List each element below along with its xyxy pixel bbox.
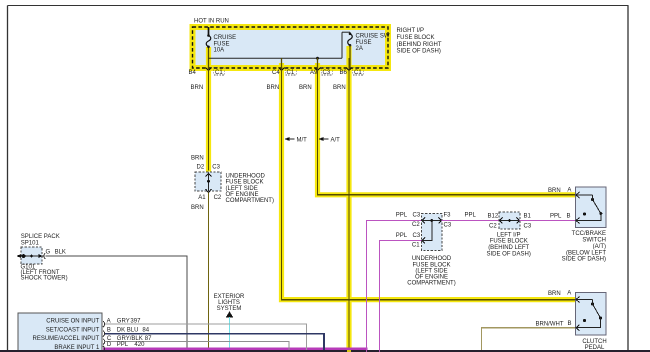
underhood fuse block U1 (left of engine compartment) dashed box <box>195 172 221 193</box>
svg-text:FUSE: FUSE <box>356 40 372 46</box>
svg-text:RIGHT I/P: RIGHT I/P <box>397 28 425 34</box>
svg-text:SWITCH: SWITCH <box>582 238 606 244</box>
svg-text:BLK: BLK <box>55 250 66 256</box>
svg-text:DK BLU: DK BLU <box>117 327 139 333</box>
wire PPL between underhood fuse block 2 and left I/P fuse block <box>442 220 500 222</box>
wire (cyan) to exterior lights system <box>229 317 231 350</box>
svg-text:B12: B12 <box>488 214 499 220</box>
svg-text:CRUISE SW: CRUISE SW <box>356 34 390 40</box>
svg-text:C2: C2 <box>214 195 222 201</box>
svg-text:SP101: SP101 <box>21 241 40 247</box>
svg-text:OF ENGINE: OF ENGINE <box>226 192 259 198</box>
svg-text:A1: A1 <box>198 195 206 201</box>
PPL stubs crossing bottom bar <box>366 350 367 352</box>
wire PPL from left I/P fuse block to TCC/brake switch pin B <box>520 220 576 222</box>
pin labels A1 C2 <box>198 195 222 201</box>
cruise fuse F1 internal wire <box>208 27 210 70</box>
fuse CRUISE FUSE 10A <box>206 34 236 53</box>
wire GRY 397 right then down <box>105 324 307 350</box>
svg-text:10A: 10A <box>214 48 225 54</box>
svg-text:UNDERHOOD: UNDERHOOD <box>412 256 452 262</box>
svg-text:FUSE BLOCK: FUSE BLOCK <box>397 35 435 41</box>
splice pack SP101 symbol <box>17 247 46 264</box>
pin letter B and label DK BLU 84 <box>107 327 150 333</box>
wire PPL vertical drop 2 from underhood fuse block 2 <box>379 241 381 352</box>
fuse CRUISE SW FUSE 2A <box>348 32 390 69</box>
wire BLK from splice pack right then down to bottom <box>46 256 188 350</box>
svg-text:C3: C3 <box>212 165 220 171</box>
svg-text:PPL: PPL <box>117 342 129 348</box>
wire PPL vertical drop 1 from underhood fuse block 2 <box>366 221 368 352</box>
svg-text:LEFT I/P: LEFT I/P <box>497 232 521 238</box>
svg-text:COMPARTMENT): COMPARTMENT) <box>407 281 455 287</box>
svg-text:C1: C1 <box>287 70 295 76</box>
svg-text:B: B <box>107 327 111 333</box>
svg-text:B: B <box>568 321 572 327</box>
bottom module edge bar (cut off box) <box>0 350 650 352</box>
svg-text:A: A <box>567 290 571 296</box>
svg-text:PPL: PPL <box>396 233 408 239</box>
label M/T with arrow <box>285 137 308 143</box>
svg-text:BRN: BRN <box>267 85 280 91</box>
svg-text:SPLICE PACK: SPLICE PACK <box>21 234 60 240</box>
svg-text:(A/T): (A/T) <box>593 244 606 250</box>
pin labels D2 C3 <box>197 165 221 171</box>
svg-text:A9: A9 <box>310 70 318 76</box>
svg-text:SYSTEM: SYSTEM <box>217 306 242 312</box>
magenta highlight of PPL 420 wire along bottom <box>103 347 368 350</box>
svg-text:BRN: BRN <box>548 291 561 297</box>
svg-text:C3: C3 <box>323 70 331 76</box>
labels BRN A at TCC switch <box>548 188 571 195</box>
underhood fuse block U2 dashed box <box>422 214 443 251</box>
svg-text:C1: C1 <box>412 243 420 249</box>
svg-text:COMPARTMENT): COMPARTMENT) <box>226 198 274 204</box>
svg-text:D2: D2 <box>197 165 205 171</box>
labels F3 / C3 / PPL at right pin of underhood fuse block 2 <box>444 213 477 229</box>
label LEFT I/P FUSE BLOCK (BEHIND LEFT SIDE OF DASH) <box>487 232 531 257</box>
label EXTERIOR LIGHTS SYSTEM <box>214 294 245 312</box>
svg-text:BRN: BRN <box>299 85 312 91</box>
wire: BRN wire 3 yellow highlight (A/T) down and right to TCC/brake switch <box>318 63 576 195</box>
wire DK BLU 84 right then down <box>105 334 324 350</box>
svg-text:C2: C2 <box>412 222 420 228</box>
svg-text:84: 84 <box>142 327 149 333</box>
wire 3 core (BRN to TCC switch) <box>318 58 576 195</box>
pin letter D and label PPL 420 <box>107 342 145 348</box>
wire: BRN wire 4 yellow highlight straight down to bottom module <box>346 46 351 352</box>
junction at A9 tap <box>316 57 319 60</box>
svg-text:RESUME/ACCEL INPUT: RESUME/ACCEL INPUT <box>33 336 100 342</box>
svg-text:TCC/BRAKE: TCC/BRAKE <box>572 231 606 237</box>
label A/T with arrow <box>319 137 341 143</box>
svg-text:BRN: BRN <box>191 155 204 161</box>
labels PPL C3 / C2 at left pin 1 of underhood fuse block 2 <box>396 213 421 229</box>
left I/P fuse block dashed box <box>499 212 520 229</box>
wire 4 core (BRN to bottom) <box>348 58 350 349</box>
svg-text:D: D <box>107 342 112 348</box>
svg-text:B6: B6 <box>340 70 348 76</box>
label UNDERHOOD FUSE BLOCK (LEFT SIDE OF ENGINE COMPARTMENT) <box>226 174 274 204</box>
labels PPL B at TCC switch <box>550 213 571 219</box>
wire 4 yellow crossing bottom bar <box>347 350 351 352</box>
pin letter A and label GRY 397 <box>107 319 141 325</box>
svg-text:(BELOW LEFT: (BELOW LEFT <box>566 250 606 256</box>
svg-text:BRN/WHT: BRN/WHT <box>536 321 564 327</box>
svg-text:LIGHTS: LIGHTS <box>218 300 240 306</box>
dashed border of right I/P fuse block <box>193 27 389 68</box>
label UNDERHOOD FUSE BLOCK (LEFT SIDE OF ENGINE COMPARTMENT) 2 <box>407 256 455 286</box>
svg-text:C1: C1 <box>215 70 223 76</box>
svg-text:BRN: BRN <box>191 205 204 211</box>
svg-text:BRN: BRN <box>191 85 204 91</box>
label G101 (LEFT FRONT SHOCK TOWER) <box>21 265 68 282</box>
svg-text:2A: 2A <box>356 46 363 52</box>
svg-text:HOT IN RUN: HOT IN RUN <box>194 19 229 25</box>
svg-text:B4: B4 <box>189 70 197 76</box>
svg-text:(BEHIND RIGHT: (BEHIND RIGHT <box>397 42 442 48</box>
labels BRN A at clutch switch <box>548 290 571 297</box>
svg-text:SET/COAST INPUT: SET/COAST INPUT <box>46 327 100 333</box>
svg-text:PPL: PPL <box>396 213 408 219</box>
label CLUTCH PEDAL <box>582 339 606 351</box>
svg-text:SIDE OF DASH): SIDE OF DASH) <box>562 257 606 263</box>
arrow to exterior lights system <box>226 311 233 317</box>
wire 1 core segment above underhood fuse block <box>208 69 210 171</box>
wire: BRN wire 1 yellow highlight from CRUISE FUSE down to underhood fuse block <box>206 47 211 172</box>
svg-text:EXTERIOR: EXTERIOR <box>214 294 245 300</box>
svg-text:C3: C3 <box>413 233 421 239</box>
wire BRN (unhighlighted) from underhood fuse block down to bottom <box>208 193 210 350</box>
fuse block right I/P: dashed box with yellow highlight <box>193 27 389 68</box>
svg-text:(BEHIND LEFT: (BEHIND LEFT <box>488 245 529 251</box>
svg-text:C3: C3 <box>524 223 532 229</box>
svg-text:G: G <box>46 250 51 256</box>
svg-text:FUSE BLOCK: FUSE BLOCK <box>226 180 264 186</box>
svg-text:SIDE OF DASH): SIDE OF DASH) <box>397 49 441 55</box>
svg-text:B1: B1 <box>524 214 532 220</box>
svg-text:A: A <box>567 188 571 194</box>
svg-text:BRN: BRN <box>333 85 346 91</box>
pin letter C and label GRY/BLK 87 <box>107 336 152 342</box>
svg-text:C3: C3 <box>413 213 421 219</box>
svg-text:C3: C3 <box>444 222 452 228</box>
wire GRY/BLK 87 right then down <box>105 342 289 350</box>
wire labels BRN under fuse block <box>191 85 346 91</box>
svg-text:SIDE OF DASH): SIDE OF DASH) <box>487 251 531 257</box>
svg-text:SHOCK TOWER): SHOCK TOWER) <box>21 276 68 282</box>
svg-text:PPL: PPL <box>550 214 562 220</box>
wire PPL horizontal to underhood fuse block 2 pin C3/C2 <box>366 220 422 222</box>
wire PPL horizontal to underhood fuse block 2 pin C3/C1 <box>379 240 422 242</box>
svg-text:PPL: PPL <box>465 213 477 219</box>
pin labels B4 C1 / C4 C1 / A9 C3 / B6 C1 <box>189 70 363 76</box>
internal bus wire of fuse block <box>209 32 351 69</box>
wire BRN/WHT from bottom up to clutch switch pin B <box>482 328 576 350</box>
label TCC/BRAKE SWITCH (A/T) (BELOW LEFT SIDE OF DASH) <box>562 231 607 263</box>
labels PPL C3 / C1 at left pin 2 of underhood fuse block 2 <box>396 233 421 249</box>
svg-text:C4: C4 <box>272 70 280 76</box>
svg-text:CRUISE: CRUISE <box>214 35 237 41</box>
svg-text:FUSE BLOCK: FUSE BLOCK <box>490 239 528 245</box>
cruise control module box (bottom left, cut off) <box>18 313 105 352</box>
svg-text:CRUISE ON INPUT: CRUISE ON INPUT <box>46 319 99 325</box>
svg-text:M/T: M/T <box>297 137 308 143</box>
svg-text:C2: C2 <box>489 223 497 229</box>
wire: BRN wire 2 yellow highlight (M/T) down and right to clutch pedal switch <box>282 63 576 300</box>
svg-text:F3: F3 <box>444 213 452 219</box>
splice pack SP101 label <box>21 234 60 247</box>
clutch pedal switch S2 box <box>576 293 607 336</box>
svg-text:420: 420 <box>134 342 145 348</box>
svg-text:FUSE BLOCK: FUSE BLOCK <box>412 262 450 268</box>
svg-text:FUSE: FUSE <box>214 41 230 47</box>
label RIGHT I/P FUSE BLOCK <box>397 28 442 55</box>
svg-text:BRN: BRN <box>548 188 561 194</box>
labels B1 / C3 at right pin of left I/P fuse block <box>524 214 532 230</box>
wire 2 core (BRN to clutch switch) <box>282 58 576 299</box>
TCC/brake switch S1 box <box>576 187 607 228</box>
svg-text:CLUTCH: CLUTCH <box>582 339 606 345</box>
svg-text:UNDERHOOD: UNDERHOOD <box>226 174 266 180</box>
labels BRN/WHT B at clutch switch <box>536 321 572 328</box>
labels PPL B12 / C2 at left pin of left I/P fuse block <box>488 214 499 230</box>
svg-text:C1: C1 <box>354 70 362 76</box>
pin exits at bottom of right I/P fuse block <box>206 68 353 71</box>
svg-text:B: B <box>567 213 571 219</box>
svg-text:A/T: A/T <box>331 137 341 143</box>
